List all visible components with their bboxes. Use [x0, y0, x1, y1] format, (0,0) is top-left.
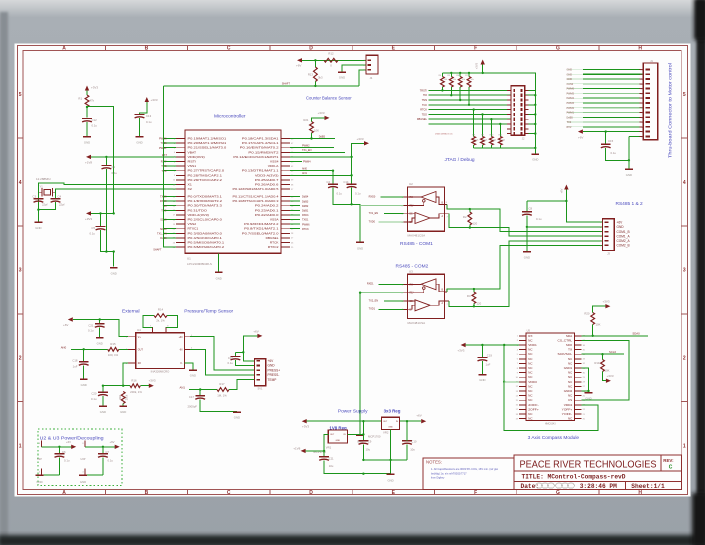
ground — [110, 268, 118, 276]
ground — [356, 242, 364, 250]
svg-text:TCK: TCK — [422, 104, 427, 107]
connector J2 — [507, 86, 529, 141]
svg-text:VR1: VR1 — [326, 446, 332, 450]
op-amp U2 MAX481 — [402, 182, 449, 237]
svg-text:R17: R17 — [219, 382, 225, 386]
svg-text:PWM6: PWM6 — [302, 223, 310, 226]
ground — [356, 435, 364, 444]
svg-text:PRESS-: PRESS- — [268, 373, 280, 377]
wire RXD0 — [160, 200, 176, 203]
resistor R19 — [594, 354, 609, 372]
svg-text:GND: GND — [100, 410, 106, 414]
svg-text:C14: C14 — [343, 180, 349, 184]
wire — [83, 365, 85, 379]
svg-text:U3: U3 — [409, 270, 413, 274]
svg-text:0.1u: 0.1u — [108, 459, 114, 463]
svg-text:EXT: EXT — [162, 154, 167, 157]
svg-text:GND: GND — [387, 479, 393, 483]
svg-text:TX2: TX2 — [567, 121, 572, 124]
svg-text:P0.30/TDI/MAT3.3: P0.30/TDI/MAT3.3 — [188, 204, 223, 208]
svg-text:PWM1: PWM1 — [567, 112, 575, 115]
svg-text:brd/dig) 1a. s/n mfrT0002/7717: brd/dig) 1a. s/n mfrT0002/7717 — [431, 471, 467, 475]
capacitor C12 — [82, 118, 97, 128]
svg-text:VDD1: VDD1 — [528, 343, 537, 347]
wire jtag bus — [422, 104, 511, 107]
svg-text:1uF: 1uF — [73, 364, 78, 368]
svg-text:SDO: SDO — [566, 343, 572, 347]
power flag +6V j1 — [578, 129, 584, 139]
svg-text:P0.25/AD0.7: P0.25/AD0.7 — [255, 178, 279, 182]
svg-text:RST/: RST/ — [188, 160, 197, 164]
svg-text:C3: C3 — [32, 195, 36, 199]
ground — [80, 379, 88, 387]
svg-text:RX2: RX2 — [567, 126, 572, 129]
svg-text:VBAT: VBAT — [188, 150, 197, 154]
wire — [583, 130, 643, 132]
ground — [215, 272, 223, 280]
wire — [606, 148, 630, 169]
wire — [307, 420, 382, 422]
op-amp VR1 regulator — [313, 430, 347, 454]
svg-text:3: 3 — [19, 268, 22, 274]
wire — [101, 230, 108, 253]
svg-text:C19: C19 — [487, 353, 493, 357]
svg-text:10u: 10u — [366, 447, 371, 451]
svg-text:U3P: U3P — [81, 458, 86, 461]
wire A2 — [449, 241, 603, 308]
wire B1 — [447, 205, 602, 232]
wire — [86, 106, 88, 118]
svg-text:G: G — [556, 46, 560, 52]
svg-text:C12: C12 — [92, 118, 98, 122]
wire — [91, 212, 115, 214]
svg-text:R12: R12 — [328, 52, 334, 56]
svg-text:R14: R14 — [158, 307, 164, 311]
wire TCK — [162, 170, 177, 173]
svg-text:P0.27/TRST/CAP2.0: P0.27/TRST/CAP2.0 — [188, 169, 225, 173]
svg-text:U2P: U2P — [37, 458, 42, 461]
label U1 — [187, 257, 212, 267]
capacitor C18 — [72, 358, 88, 368]
svg-text:12.288Mhz: 12.288Mhz — [36, 177, 51, 181]
svg-text:U4: U4 — [137, 328, 141, 332]
wire jtag bus — [422, 99, 511, 102]
wire TX1_EN — [369, 212, 404, 215]
svg-text:C17: C17 — [189, 395, 195, 399]
wire — [91, 156, 176, 158]
wire j1 — [567, 83, 644, 86]
svg-text:JTAG / Debug: JTAG / Debug — [445, 157, 475, 163]
svg-text:TXD0: TXD0 — [369, 220, 376, 223]
wire — [235, 360, 254, 366]
power flag +6V U2P — [66, 440, 76, 449]
svg-text:PEACE RIVER TECHNOLOGIES: PEACE RIVER TECHNOLOGIES — [520, 460, 657, 471]
power flag +3V3 r16 — [148, 378, 155, 388]
svg-text:NC: NC — [528, 375, 532, 379]
svg-text:YOFF+: YOFF+ — [562, 407, 573, 411]
transistor U3P power pins — [81, 441, 86, 475]
svg-text:P0.10/RTS1/CAP1.0/AD0.3: P0.10/RTS1/CAP1.0/AD0.3 — [233, 199, 280, 203]
notes label — [426, 460, 442, 465]
wire — [332, 171, 334, 185]
svg-text:GND: GND — [268, 364, 276, 368]
svg-text:NC: NC — [528, 398, 532, 402]
svg-text:P0.26/AD0.6: P0.26/AD0.6 — [255, 183, 279, 187]
svg-text:GND: GND — [479, 378, 485, 382]
svg-text:DdB5: DdB5 — [319, 135, 326, 138]
svg-text:NC: NC — [528, 361, 532, 365]
wire — [525, 94, 537, 96]
connector J3 — [600, 219, 614, 256]
wire RXD1 — [290, 214, 309, 217]
wire PWM6 — [290, 223, 310, 226]
wire SDA — [582, 332, 648, 337]
svg-text:47k: 47k — [90, 99, 95, 103]
resistor R12 — [324, 52, 338, 68]
svg-text:MCP1700: MCP1700 — [368, 434, 381, 438]
svg-text:+IN: +IN — [179, 336, 183, 339]
wire — [526, 201, 528, 212]
resistor R13 — [308, 60, 323, 86]
svg-text:C: C — [227, 46, 231, 52]
svg-text:CS_CTRL: CS_CTRL — [558, 338, 573, 342]
svg-text:COM1_B: COM1_B — [617, 230, 630, 234]
svg-text:from Digikey: from Digikey — [431, 476, 445, 479]
resistor R5 — [448, 73, 456, 97]
svg-text:NC: NC — [568, 357, 572, 361]
svg-text:2OFF-: 2OFF- — [528, 403, 539, 407]
svg-text:VSS2: VSS2 — [188, 222, 197, 226]
wire jtag bus — [423, 94, 511, 97]
svg-text:C: C — [669, 464, 673, 470]
svg-text:5: 5 — [683, 92, 686, 98]
power flag +6V U3P — [109, 440, 119, 449]
svg-text:P0.7/SSEL0/MAT2.0: P0.7/SSEL0/MAT2.0 — [242, 231, 279, 235]
power flag +6V rail — [416, 414, 426, 424]
svg-text:PWM4: PWM4 — [303, 161, 311, 164]
node COM labels — [617, 220, 631, 247]
svg-text:P0.22/AD0.0: P0.22/AD0.0 — [255, 213, 279, 217]
svg-text:F: F — [474, 46, 477, 52]
svg-text:P0.29/TCK/CAP2.2: P0.29/TCK/CAP2.2 — [188, 178, 223, 182]
wire j1 — [567, 97, 644, 100]
svg-text:+6V: +6V — [268, 359, 275, 363]
ground — [119, 406, 127, 414]
svg-text:R1: R1 — [78, 96, 82, 100]
date field — [521, 483, 618, 490]
svg-text:C21: C21 — [88, 323, 94, 327]
wire — [105, 157, 107, 166]
svg-text:C11: C11 — [329, 456, 334, 460]
svg-text:MAX481CSA: MAX481CSA — [408, 234, 426, 238]
svg-text:X2: X2 — [188, 187, 193, 191]
svg-text:+3V3: +3V3 — [602, 300, 609, 304]
svg-text:10k: 10k — [484, 140, 487, 142]
power flag +3V3 r20 — [602, 300, 610, 309]
svg-text:1M, 1%: 1M, 1% — [217, 394, 227, 398]
svg-text:GND: GND — [120, 410, 126, 414]
svg-text:B: B — [145, 46, 149, 52]
wire — [37, 210, 39, 222]
capacitor C11 — [319, 456, 334, 468]
svg-text:V-: V- — [180, 362, 182, 365]
ground — [36, 475, 44, 483]
wire TDO — [161, 209, 176, 212]
svg-text:120: 120 — [477, 301, 482, 305]
label jtag rev — [435, 132, 453, 135]
svg-text:Thru-board Connector to Motor: Thru-board Connector to Motor control — [668, 63, 673, 158]
svg-text:NC: NC — [528, 352, 532, 356]
svg-text:SV1: SV1 — [258, 387, 263, 391]
resistor R15 — [108, 342, 119, 357]
svg-text:C2: C2 — [326, 180, 330, 184]
svg-text:TX1_EN: TX1_EN — [302, 149, 312, 152]
svg-text:4: 4 — [19, 180, 22, 186]
wire TX1_EN — [157, 232, 176, 235]
svg-text:+6V: +6V — [578, 136, 583, 140]
wire — [347, 433, 363, 435]
svg-text:0.1u: 0.1u — [611, 151, 617, 155]
wire pressP — [190, 337, 255, 371]
svg-text:U1: U1 — [187, 257, 191, 261]
svg-text:F: F — [474, 490, 477, 496]
svg-text:SCL0: SCL0 — [609, 350, 616, 354]
wire — [324, 460, 391, 475]
svg-text:DBGSEL: DBGSEL — [266, 236, 279, 240]
capacitor C7 — [98, 447, 113, 463]
wire TDI — [162, 205, 176, 208]
svg-text:COM1_A: COM1_A — [617, 234, 631, 238]
ground — [99, 406, 107, 414]
resistor R1 — [78, 95, 94, 107]
wire TX1_EN — [290, 149, 345, 152]
wire — [525, 123, 537, 125]
power flag +6V cbs — [296, 58, 302, 68]
svg-text:YOFF-: YOFF- — [562, 412, 573, 416]
wire jtag bus — [422, 113, 511, 116]
wire — [42, 457, 60, 475]
svg-text:AN1: AN1 — [180, 385, 186, 389]
wire j1 — [567, 126, 644, 129]
wire DdB5 — [290, 135, 335, 139]
capacitor C10 — [402, 439, 417, 451]
ground — [35, 222, 43, 230]
svg-text:+6V: +6V — [296, 64, 301, 68]
svg-text:GND: GND — [80, 480, 86, 484]
svg-text:1uF: 1uF — [486, 363, 491, 367]
resistor R2 — [463, 209, 478, 228]
node EXT — [162, 154, 167, 157]
power flag +3V3 left — [85, 211, 92, 221]
wire RE1 pale — [360, 204, 404, 206]
svg-text:TCK: TCK — [162, 170, 167, 173]
svg-text:+3V3: +3V3 — [151, 98, 158, 102]
ground — [189, 370, 197, 378]
wire jtag bus — [429, 123, 512, 125]
svg-text:+3V3: +3V3 — [85, 217, 92, 221]
ground — [79, 475, 87, 483]
svg-text:5: 5 — [19, 92, 22, 98]
label 3x3 Reg — [384, 408, 401, 413]
wire — [100, 213, 102, 226]
svg-text:DdB1: DdB1 — [302, 210, 309, 213]
svg-text:GND: GND — [81, 383, 87, 387]
svg-text:TDO: TDO — [422, 113, 427, 116]
svg-text:+3V3: +3V3 — [356, 137, 363, 141]
wire RE2 pale — [360, 292, 404, 294]
wire j1 — [567, 116, 644, 119]
wire X1 — [38, 183, 176, 210]
svg-text:NC: NC — [568, 394, 572, 398]
svg-text:1: 1 — [683, 443, 686, 449]
svg-text:VSSA: VSSA — [270, 218, 279, 222]
svg-text:VSS4: VSS4 — [270, 160, 279, 164]
svg-text:SDA: SDA — [566, 334, 573, 338]
svg-text:AN0: AN0 — [61, 345, 67, 349]
svg-text:VDD3-A(3V3): VDD3-A(3V3) — [255, 173, 279, 177]
svg-text:C1: C1 — [112, 165, 116, 169]
svg-text:GND: GND — [216, 277, 222, 281]
wire — [481, 361, 483, 374]
svg-text:NOTES:: NOTES: — [426, 460, 442, 465]
rev label — [663, 458, 674, 470]
ground — [136, 137, 144, 145]
capacitor C6 — [55, 447, 70, 463]
svg-text:GND: GND — [585, 397, 591, 401]
wire jtag gnd bus — [474, 90, 537, 153]
svg-text:4: 4 — [683, 180, 686, 186]
wire — [119, 348, 128, 350]
capacitor C3 — [32, 195, 47, 207]
svg-text:-IN: -IN — [179, 348, 182, 351]
svg-text:P0.11/CTS1/CAP1.1/AD0.4: P0.11/CTS1/CAP1.1/AD0.4 — [233, 195, 280, 199]
svg-text:DdB4: DdB4 — [302, 196, 309, 199]
wire — [140, 102, 147, 115]
wire A1 — [449, 214, 603, 237]
svg-text:+6V: +6V — [109, 440, 114, 444]
resistor R17 — [217, 382, 229, 398]
svg-text:3 Axis Compass Module: 3 Axis Compass Module — [528, 435, 580, 441]
svg-text:U2 & U3 Power/Decoupling: U2 & U3 Power/Decoupling — [40, 436, 105, 441]
wire — [139, 118, 141, 136]
ground — [338, 72, 346, 80]
svg-text:0.1u: 0.1u — [91, 397, 97, 401]
svg-text:TX1_EN: TX1_EN — [369, 212, 379, 215]
op-amp U3 MAX481 — [402, 270, 449, 325]
wire — [342, 65, 366, 72]
svg-text:22pf: 22pf — [42, 202, 48, 206]
svg-text:R19: R19 — [594, 361, 600, 365]
wire DdB3 — [290, 200, 309, 203]
svg-text:GND: GND — [388, 427, 393, 429]
svg-text:LPC2109FBD48-S: LPC2109FBD48-S — [187, 262, 212, 266]
svg-text:TITLE: MControl-Compass-revD: TITLE: MControl-Compass-revD — [522, 474, 626, 481]
wire — [362, 444, 407, 461]
wire — [603, 372, 606, 381]
wire — [99, 320, 101, 324]
wire — [582, 390, 589, 392]
wire — [189, 388, 217, 390]
svg-text:RTXC1: RTXC1 — [188, 227, 199, 231]
svg-text:NC: NC — [528, 394, 532, 398]
svg-text:NC: NC — [568, 417, 572, 421]
wire CS_CTRL — [582, 340, 629, 400]
op-amp U4 INA326 — [126, 326, 193, 374]
svg-text:C: C — [227, 490, 231, 496]
wire — [199, 390, 201, 396]
svg-text:NC: NC — [528, 357, 532, 361]
svg-text:2k, 1%: 2k, 1% — [156, 319, 165, 323]
wire — [185, 363, 193, 369]
wire jtag bus — [420, 109, 511, 112]
wire j1 — [567, 92, 644, 95]
svg-text:PWM6: PWM6 — [567, 88, 575, 91]
wire TXD1 — [290, 219, 309, 222]
wire j1 — [567, 107, 644, 110]
power flag +6V sv1 — [253, 329, 262, 338]
svg-text:H: H — [638, 490, 642, 496]
wire — [102, 385, 130, 387]
svg-text:10K: 10K — [596, 322, 601, 326]
resistor R4 — [439, 73, 447, 92]
svg-text:TRST/: TRST/ — [420, 89, 428, 92]
wire — [400, 420, 422, 422]
svg-text:R3: R3 — [467, 294, 471, 298]
power flag +6V rs485 — [560, 185, 569, 194]
capacitor C2 — [326, 180, 342, 195]
node AN0 — [61, 345, 67, 349]
svg-text:OUT: OUT — [138, 348, 144, 351]
svg-text:NC: NC — [528, 338, 532, 342]
svg-text:PRESS+: PRESS+ — [268, 368, 281, 372]
wire SDA0 — [160, 228, 176, 231]
svg-text:GND: GND — [35, 226, 41, 230]
svg-text:X1: X1 — [188, 183, 193, 187]
connector J1 — [640, 59, 658, 140]
svg-text:3:28:46 PM: 3:28:46 PM — [580, 483, 617, 490]
svg-text:NC: NC — [568, 371, 572, 375]
wire — [527, 200, 567, 202]
wire — [482, 65, 484, 73]
ground — [625, 169, 633, 177]
svg-text:GND: GND — [97, 342, 103, 346]
svg-text:C16: C16 — [228, 356, 234, 360]
wire — [73, 318, 128, 336]
svg-text:GND: GND — [626, 173, 632, 177]
svg-text:C5: C5 — [91, 226, 95, 230]
svg-text:GND: GND — [357, 246, 363, 250]
wire — [362, 421, 364, 441]
svg-text:NC: NC — [528, 371, 532, 375]
svg-text:RXD1: RXD1 — [367, 283, 374, 286]
wire — [85, 457, 103, 475]
svg-text:+6V: +6V — [253, 329, 258, 333]
wire DdB1 — [290, 210, 309, 213]
label Microcontroller — [214, 114, 246, 120]
label 1V8 Reg — [329, 425, 347, 430]
svg-text:P0.1/RXD0/MAT3.2: P0.1/RXD0/MAT3.2 — [188, 199, 223, 203]
svg-text:+3V3: +3V3 — [457, 349, 464, 353]
svg-text:+3V3: +3V3 — [606, 374, 613, 378]
title block lines — [423, 455, 681, 489]
wire TXD0 — [160, 196, 176, 199]
svg-text:0.1u: 0.1u — [536, 217, 542, 221]
svg-text:TX2_EN: TX2_EN — [369, 299, 379, 302]
svg-text:R2: R2 — [463, 215, 467, 219]
svg-text:TXD1: TXD1 — [302, 219, 309, 222]
svg-text:CAN2: CAN2 — [567, 83, 574, 86]
svg-text:+3V3: +3V3 — [317, 111, 324, 115]
